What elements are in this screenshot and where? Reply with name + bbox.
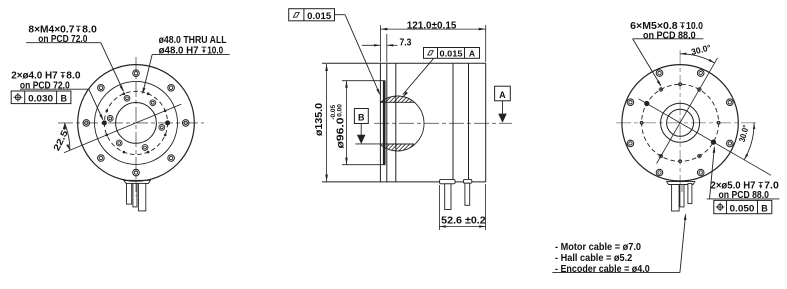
D96 extension bottom (342, 164, 385, 166)
left view outer circle D135 (78, 65, 195, 182)
left mounting face (379, 63, 381, 182)
svg-text:on PCD 88.0: on PCD 88.0 (643, 31, 696, 42)
datum B (355, 143, 380, 145)
bore top line (380, 101, 413, 103)
middle cable 2 (465, 183, 470, 205)
svg-text:0.00: 0.00 (337, 104, 344, 117)
2x dowel holes 5.0 H7 on PCD88 (644, 101, 649, 106)
flatness frame 0.015 top-left (289, 9, 335, 21)
svg-text:A: A (469, 48, 475, 58)
middle cable 1 (445, 184, 451, 210)
6x rotor holes inner ring (159, 125, 165, 131)
left view cable 2 (133, 183, 137, 207)
right view bolt circle PCD88 dashed (642, 84, 719, 161)
svg-text:B: B (358, 112, 365, 122)
middle view body bottom edge + extension (322, 181, 486, 183)
position tolerance frame 0.050 B (714, 200, 772, 213)
svg-text:B: B (761, 203, 768, 213)
right view cable 1 (672, 185, 680, 212)
D96 extension top (342, 80, 385, 82)
svg-text:- Hall cable = ø5.2: - Hall cable = ø5.2 (555, 253, 633, 264)
right view inner circle 2 (667, 109, 694, 136)
left view bore circle D48 (116, 103, 157, 144)
centerline over cables left (135, 184, 137, 196)
left view cable 3 (138, 183, 145, 211)
svg-text:52.6 ±0.2: 52.6 ±0.2 (441, 215, 486, 226)
left view 22.5 deg index line (64, 104, 181, 153)
svg-text:0.015: 0.015 (307, 11, 331, 21)
left view bolt circle PCD72 dashed (104, 91, 167, 154)
bore bottom line (380, 143, 413, 145)
right view 60deg line (657, 58, 718, 164)
right view outer circle (622, 65, 738, 181)
22.5 deg angular dimension arc (65, 123, 70, 150)
svg-text:7.3: 7.3 (400, 37, 412, 48)
svg-text:- Encoder cable = ø4.0: - Encoder cable = ø4.0 (555, 264, 650, 275)
30 deg arc dimension right (744, 123, 754, 160)
svg-text:-0.05: -0.05 (330, 104, 337, 119)
8x M4 hole dots on PCD72 (164, 110, 167, 113)
6x M5 holes on PCD88 (698, 88, 702, 92)
left view cable 1 (127, 183, 132, 204)
dimension 7.3 (386, 34, 388, 62)
flatness frame 0.015 A (424, 48, 480, 59)
svg-text:0.015: 0.015 (440, 48, 463, 58)
centerline over cables right (681, 184, 683, 192)
left view spigot circle D96 (95, 81, 178, 164)
svg-text:on PCD 72.0: on PCD 72.0 (20, 80, 70, 91)
middle cable gland 1 (440, 179, 456, 183)
left view centerline vertical (135, 57, 137, 196)
svg-text:B: B (60, 93, 67, 103)
flange rear face (386, 63, 388, 182)
housing step line (395, 63, 397, 182)
2x dowel holes 4.0 H7 on PCD72 (165, 120, 170, 125)
dimension D96 (346, 81, 348, 165)
svg-text:ø96.0: ø96.0 (336, 117, 347, 149)
right view centerline horizontal (616, 122, 757, 124)
D96 spigot section bar (383, 81, 386, 165)
datum A (495, 86, 511, 101)
left view centerline horizontal (58, 122, 204, 124)
svg-text:on PCD 88.0: on PCD 88.0 (719, 190, 770, 201)
right view cable 2 (680, 185, 684, 207)
right view 330deg line (639, 99, 772, 176)
middle cable gland 2 (464, 179, 472, 183)
svg-text:- Motor cable = ø7.0: - Motor cable = ø7.0 (555, 242, 641, 253)
svg-text:121.0±0.15: 121.0±0.15 (407, 20, 457, 31)
right view inner circle 1 (661, 103, 700, 142)
8x mounting holes outer ring (182, 120, 189, 127)
dimension D135 (326, 64, 328, 182)
svg-text:ø135.0: ø135.0 (314, 103, 325, 136)
30 deg arc dimension top (680, 54, 715, 63)
dimension 121.0 (379, 25, 381, 62)
svg-text:0.030: 0.030 (28, 93, 53, 103)
right view centerline vertical (679, 50, 681, 192)
right view cable 3 (688, 184, 692, 204)
svg-text:on PCD 72.0: on PCD 72.0 (38, 34, 87, 45)
middle view centerline (374, 122, 512, 124)
middle view body top edge + D135 extension (322, 62, 486, 64)
position tolerance frame 0.030 B (11, 91, 71, 104)
right view cable bracket (667, 182, 695, 185)
8x mounting holes outer ring right (727, 99, 734, 106)
left view cable bracket (124, 180, 151, 183)
svg-text:A: A (499, 90, 506, 100)
rear face (datum A) (485, 63, 487, 182)
svg-text:0.050: 0.050 (730, 203, 755, 213)
dimension 52.6 (438, 185, 440, 230)
